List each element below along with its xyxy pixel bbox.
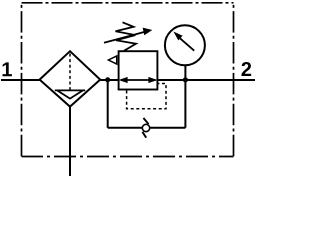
check valve seat stroke (lower) — [142, 132, 146, 138]
enclosure boundary bottom edge (dash-dot) — [22, 156, 234, 158]
regulator flow path (double-headed arrow) — [121, 79, 156, 81]
wire: bypass bottom line — [108, 127, 186, 129]
wire: inlet line from port 1 to filter — [1, 79, 40, 81]
condensate drain line — [69, 107, 71, 176]
enclosure boundary right edge (dash-dot) — [233, 3, 235, 157]
filter element (dashed line) — [69, 54, 71, 90]
relief vent triangle — [108, 56, 116, 64]
adjustment arrow through spring — [104, 32, 145, 43]
gauge needle — [180, 38, 194, 50]
water separator baffle line — [55, 89, 85, 91]
port label 2 — [241, 62, 251, 76]
wire: regulator outlet to port 2 — [156, 79, 255, 81]
enclosure boundary top edge (dash-dot) — [22, 2, 234, 4]
junction node at filter outlet — [105, 77, 110, 82]
enclosure boundary left edge (dash-dot) — [21, 3, 23, 157]
pilot line (dashed) from regulator to outlet — [127, 84, 166, 109]
filter F1 body (diamond) — [40, 51, 101, 106]
wire: gauge / bypass right vertical — [184, 66, 186, 128]
port label 1 — [3, 62, 12, 76]
wire: bypass left vertical — [107, 80, 109, 128]
regulator R1 body (box) — [119, 51, 158, 89]
regulator spring (zigzag) — [116, 22, 137, 51]
junction node at gauge tap — [183, 77, 188, 82]
check valve seat stroke (upper) — [143, 118, 148, 124]
wire: filter outlet to regulator inlet — [100, 79, 120, 81]
check valve ball — [142, 124, 149, 131]
pressure gauge G1 — [165, 25, 205, 65]
water separator vee — [58, 91, 83, 99]
